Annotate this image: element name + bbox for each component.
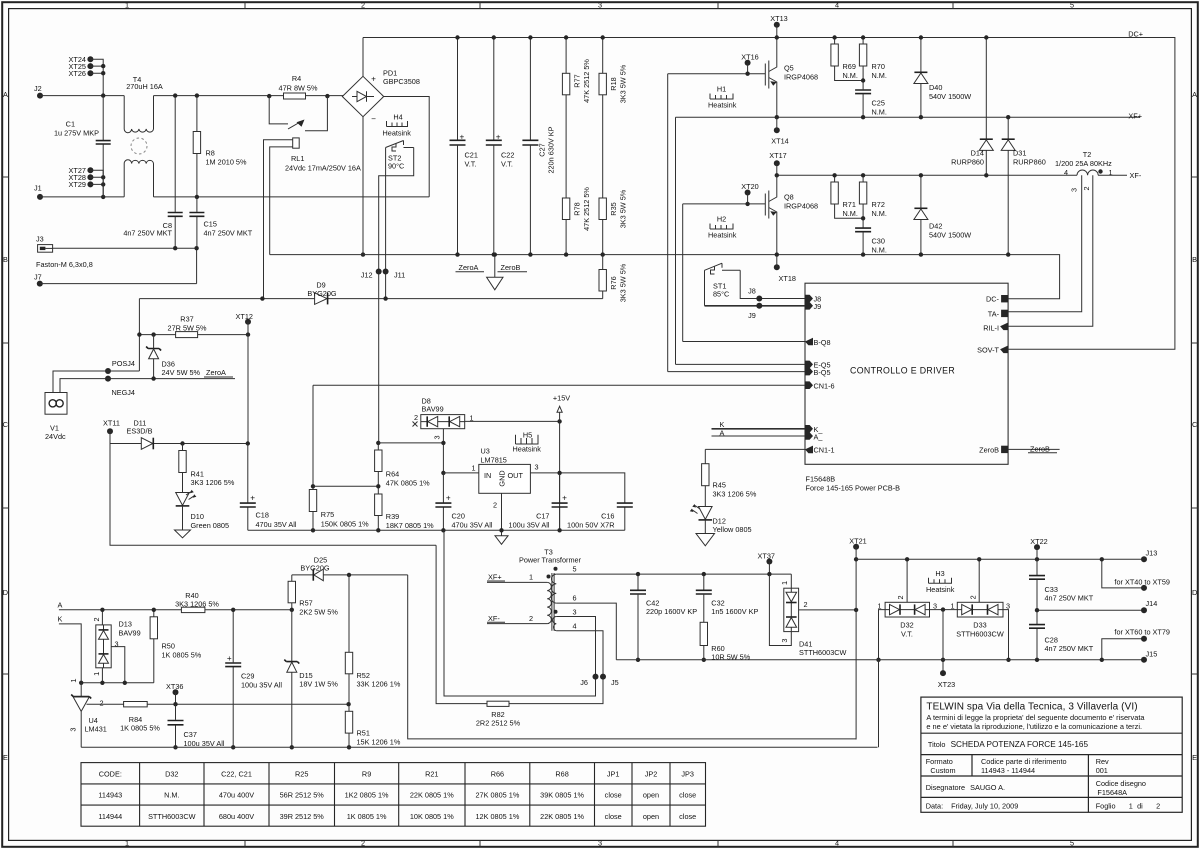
node XT17 <box>774 160 780 166</box>
svg-text:di: di <box>1137 801 1143 810</box>
svg-text:IRGP4068: IRGP4068 <box>784 73 818 82</box>
svg-text:D33: D33 <box>973 621 986 630</box>
svg-text:150K 0805 1%: 150K 0805 1% <box>321 520 369 529</box>
svg-text:B: B <box>1192 255 1197 264</box>
svg-text:N.M.: N.M. <box>843 209 858 218</box>
svg-text:4: 4 <box>572 622 576 631</box>
capacitor C20 <box>442 473 444 530</box>
svg-text:33K 1206 1%: 33K 1206 1% <box>357 680 401 689</box>
wire U3 out <box>530 473 624 503</box>
wire for XT40 branch <box>1102 559 1144 588</box>
pin B-Q8 <box>805 338 813 346</box>
svg-text:−: − <box>371 115 376 124</box>
wire D32 pin3 to D33 pin1 <box>930 609 958 611</box>
node J12 <box>376 269 382 275</box>
svg-text:R69: R69 <box>843 62 856 71</box>
resistor R40 <box>181 607 205 612</box>
svg-text:CN1-6: CN1-6 <box>814 382 835 391</box>
resistor R37 <box>176 332 198 338</box>
svg-text:BYG20G: BYG20G <box>307 289 337 298</box>
svg-text:ZeroA: ZeroA <box>459 263 479 272</box>
wire D13 pin3 <box>111 647 125 683</box>
transistor Q5 <box>765 61 769 89</box>
svg-text:Custom: Custom <box>930 766 955 775</box>
resistor R35 <box>599 198 606 220</box>
pin DC- <box>1001 295 1008 302</box>
svg-text:C37: C37 <box>184 730 197 739</box>
node XT12 <box>245 319 251 325</box>
wire POSJ4 vertical <box>138 299 140 371</box>
diode D31 <box>1007 117 1009 254</box>
svg-text:4n7 250V MKT: 4n7 250V MKT <box>204 229 253 238</box>
svg-text:1K 0805 5%: 1K 0805 5% <box>120 724 160 733</box>
svg-text:K: K <box>58 615 63 624</box>
svg-text:XT13: XT13 <box>770 14 787 23</box>
svg-text:N.M.: N.M. <box>164 791 179 800</box>
T3 core <box>552 573 554 631</box>
svg-text:XF-: XF- <box>488 614 500 623</box>
ground symbol U3 <box>495 536 508 545</box>
svg-text:H5: H5 <box>523 431 532 440</box>
svg-text:90°C: 90°C <box>388 161 404 170</box>
svg-text:39R 2512 5%: 39R 2512 5% <box>280 812 325 821</box>
svg-text:C30: C30 <box>872 237 885 246</box>
svg-text:3: 3 <box>933 601 937 610</box>
svg-text:+: + <box>496 133 501 142</box>
pin CN1-6 <box>805 381 813 389</box>
svg-text:J6: J6 <box>580 678 588 687</box>
svg-text:4: 4 <box>835 1 839 10</box>
wire T3 pin5 <box>556 573 791 575</box>
svg-text:22K 0805 1%: 22K 0805 1% <box>410 791 454 800</box>
svg-text:XF+: XF+ <box>488 573 502 582</box>
pin E-Q5 <box>805 361 813 369</box>
resistor R69 <box>835 38 864 81</box>
svg-text:XT22: XT22 <box>1030 537 1047 546</box>
svg-text:47K 0805 1%: 47K 0805 1% <box>386 478 430 487</box>
svg-text:A: A <box>1192 90 1197 99</box>
svg-text:10K 0805 1%: 10K 0805 1% <box>410 812 454 821</box>
node XT29 <box>87 181 93 187</box>
svg-text:N.M.: N.M. <box>872 209 887 218</box>
wire D32 pin2 <box>906 559 908 602</box>
svg-text:100u 35V All: 100u 35V All <box>509 521 550 530</box>
svg-text:Heatsink: Heatsink <box>708 101 737 110</box>
resistor R77 <box>565 38 567 255</box>
capacitor C15 <box>196 197 198 248</box>
resistor R76 <box>602 255 604 299</box>
svg-text:R35: R35 <box>609 202 618 215</box>
svg-text:3K3 1206 5%: 3K3 1206 5% <box>713 489 757 498</box>
svg-text:3K3 1206 5%: 3K3 1206 5% <box>191 478 235 487</box>
svg-text:B-Q5: B-Q5 <box>814 368 831 377</box>
svg-text:Heatsink: Heatsink <box>708 231 737 240</box>
svg-text:1: 1 <box>1108 168 1112 177</box>
svg-text:D14: D14 <box>971 149 984 158</box>
svg-text:Power Transformer: Power Transformer <box>519 556 582 565</box>
diode D9 <box>315 293 327 305</box>
svg-text:100u 35V All: 100u 35V All <box>241 680 282 689</box>
svg-text:540V 1500W: 540V 1500W <box>929 230 971 239</box>
diode D32 <box>885 602 929 617</box>
wire J14 line <box>1037 609 1144 611</box>
svg-text:470u 400V: 470u 400V <box>219 791 254 800</box>
svg-text:R9: R9 <box>362 769 371 778</box>
wire K junction line <box>81 682 154 684</box>
wire K line <box>59 624 81 683</box>
svg-text:C27: C27 <box>538 143 547 156</box>
node XT25 <box>87 63 93 69</box>
svg-text:R41: R41 <box>191 469 204 478</box>
svg-text:XF-: XF- <box>1130 171 1142 180</box>
wire PD1 right to J1 net <box>384 97 430 197</box>
svg-text:Foglio: Foglio <box>1096 801 1116 810</box>
svg-text:114943: 114943 <box>98 791 122 800</box>
svg-text:for XT40 to XT59: for XT40 to XT59 <box>1114 578 1170 587</box>
ground symbol D12 <box>704 520 706 534</box>
node J15 <box>1141 657 1147 663</box>
svg-text:H2: H2 <box>717 215 726 224</box>
node XT37 <box>766 559 772 565</box>
svg-text:J1: J1 <box>34 184 42 193</box>
svg-text:F15648A: F15648A <box>1097 788 1127 797</box>
svg-text:540V 1500W: 540V 1500W <box>929 92 971 101</box>
svg-text:2: 2 <box>804 600 808 609</box>
diode D40 <box>920 38 922 118</box>
svg-text:JP3: JP3 <box>681 769 694 778</box>
svg-text:XT14: XT14 <box>771 137 788 146</box>
svg-text:2: 2 <box>1156 801 1160 810</box>
svg-text:D13: D13 <box>119 619 132 628</box>
svg-text:R60: R60 <box>711 644 724 653</box>
wire J12 vertical to R64 <box>378 272 380 443</box>
capacitor C33 <box>1036 559 1038 610</box>
wire LM431 ref line <box>87 703 349 705</box>
svg-text:XT26: XT26 <box>69 69 86 78</box>
svg-text:J14: J14 <box>1146 599 1158 608</box>
wire XT21 vertical <box>855 547 857 740</box>
svg-text:Data:: Data: <box>926 801 943 810</box>
svg-text:ZeroB: ZeroB <box>501 263 521 272</box>
diode D14 <box>985 38 987 176</box>
svg-text:D: D <box>1192 588 1197 597</box>
wire D32 pin1 down <box>879 610 886 660</box>
node J9 <box>756 303 762 309</box>
svg-text:H4: H4 <box>393 113 402 122</box>
resistor R45 <box>704 449 706 506</box>
resistor R41 <box>182 444 184 493</box>
svg-text:STTH6003CW: STTH6003CW <box>956 630 1004 639</box>
svg-text:A_: A_ <box>814 432 824 441</box>
net label ZeroB right <box>1008 448 1060 450</box>
zener D15 <box>291 610 293 748</box>
capacitor C1 <box>102 96 104 197</box>
wire XT23 vertical <box>942 610 944 674</box>
node XT14 <box>774 127 780 133</box>
svg-text:R70: R70 <box>872 62 885 71</box>
svg-text:+: + <box>446 494 451 503</box>
svg-text:C16: C16 <box>601 511 614 520</box>
node XT11 <box>107 428 113 434</box>
wire Q5 gate <box>668 73 766 75</box>
svg-text:D31: D31 <box>1013 149 1026 158</box>
resistor R70 <box>862 38 864 90</box>
resistor R8 <box>196 96 198 197</box>
svg-text:470u 35V All: 470u 35V All <box>452 521 493 530</box>
svg-text:85°C: 85°C <box>713 290 729 299</box>
svg-text:H1: H1 <box>717 85 726 94</box>
node XT13 <box>774 22 780 28</box>
wire J2 line <box>40 95 343 97</box>
resistor R57 <box>291 575 293 610</box>
svg-text:D40: D40 <box>929 83 942 92</box>
svg-text:1K 0805 1%: 1K 0805 1% <box>347 812 387 821</box>
node J11 <box>383 269 389 275</box>
svg-text:D12: D12 <box>713 516 726 525</box>
node for XT40 <box>1141 585 1147 591</box>
wire PD1 bottom to zero rail <box>362 117 364 255</box>
svg-text:U4: U4 <box>89 716 98 725</box>
svg-text:1: 1 <box>471 463 475 472</box>
svg-text:22K 0805 1%: 22K 0805 1% <box>540 812 584 821</box>
wire CN1-6 <box>313 384 805 386</box>
svg-text:18K7 0805 1%: 18K7 0805 1% <box>386 521 434 530</box>
svg-text:J8: J8 <box>748 287 756 296</box>
svg-text:1: 1 <box>69 678 78 682</box>
svg-text:XT23: XT23 <box>938 680 955 689</box>
svg-text:ZeroA: ZeroA <box>206 368 226 377</box>
svg-text:24Vdc 17mA/250V 16A: 24Vdc 17mA/250V 16A <box>285 164 361 173</box>
svg-text:CONTROLLO E DRIVER: CONTROLLO E DRIVER <box>850 365 955 375</box>
resistor R50 <box>153 610 155 683</box>
wire D25 to sense line <box>408 575 856 739</box>
wire PD1 top to DC+ rail <box>362 38 364 77</box>
svg-text:J12: J12 <box>361 271 373 280</box>
svg-text:A: A <box>3 90 8 99</box>
svg-text:39K 0805 1%: 39K 0805 1% <box>540 791 584 800</box>
svg-text:1: 1 <box>1129 801 1133 810</box>
ground symbol D10 <box>182 506 184 530</box>
svg-text:680u 400V: 680u 400V <box>219 812 254 821</box>
svg-text:1: 1 <box>950 601 954 610</box>
svg-text:R8: R8 <box>206 149 215 158</box>
svg-text:J15: J15 <box>1146 649 1158 658</box>
svg-text:RIL-I: RIL-I <box>983 323 999 332</box>
svg-text:R51: R51 <box>357 729 370 738</box>
svg-text:C25: C25 <box>872 99 885 108</box>
svg-text:1: 1 <box>125 1 129 10</box>
node XT22 <box>1034 544 1040 550</box>
svg-text:C32: C32 <box>711 598 724 607</box>
svg-text:12K 0805 1%: 12K 0805 1% <box>475 812 519 821</box>
wire gate vertical B-Q8 <box>682 204 684 342</box>
svg-text:27K 0805 1%: 27K 0805 1% <box>475 791 519 800</box>
svg-text:+: + <box>371 75 376 84</box>
svg-text:2K2 5W 5%: 2K2 5W 5% <box>299 608 338 617</box>
node POSJ4 <box>105 368 111 374</box>
wire XT24-26 to C1 <box>90 59 103 95</box>
svg-text:C18: C18 <box>256 510 269 519</box>
svg-text:Q8: Q8 <box>784 193 794 202</box>
svg-text:LM7815: LM7815 <box>481 456 507 465</box>
svg-text:for XT60 to XT79: for XT60 to XT79 <box>1114 627 1170 636</box>
svg-text:open: open <box>643 791 659 800</box>
svg-text:XT29: XT29 <box>69 180 86 189</box>
resistor R84 <box>124 702 148 707</box>
svg-text:Force 145-165 Power PCB-B: Force 145-165 Power PCB-B <box>806 483 901 492</box>
svg-text:5: 5 <box>1070 839 1074 848</box>
wire XF- rail <box>777 174 1077 176</box>
svg-text:470u 35V All: 470u 35V All <box>256 520 297 529</box>
resistor R52 <box>348 575 350 711</box>
svg-text:R45: R45 <box>713 481 726 490</box>
svg-text:4n7 250V MKT: 4n7 250V MKT <box>123 229 172 238</box>
wire J11 vertical to D9 line <box>385 272 387 299</box>
svg-text:2: 2 <box>493 501 497 510</box>
capacitor C18 <box>247 444 249 531</box>
wire R37 line <box>139 334 248 336</box>
svg-text:N.M.: N.M. <box>872 107 887 116</box>
svg-text:3K3 5W 5%: 3K3 5W 5% <box>619 64 628 103</box>
wire POSJ4 <box>53 371 139 393</box>
svg-text:V.T.: V.T. <box>465 160 477 169</box>
capacitor C30 <box>855 228 871 232</box>
wire emitter vertical E-Q5 <box>675 117 677 364</box>
svg-text:C33: C33 <box>1045 585 1058 594</box>
svg-text:2: 2 <box>969 595 978 599</box>
diode D11 <box>141 438 153 450</box>
wire B-Q8 <box>683 341 805 343</box>
svg-text:C21: C21 <box>465 151 478 160</box>
svg-text:D41: D41 <box>799 639 812 648</box>
shunt regulator U4 LM431 <box>80 683 82 697</box>
wire D41 pin2 <box>799 609 857 611</box>
wire J1 line <box>40 196 429 198</box>
resistor R51 <box>345 711 352 733</box>
svg-text:4n7 250V MKT: 4n7 250V MKT <box>1045 644 1094 653</box>
svg-text:A termini di legge la propriet: A termini di legge la proprieta' del seg… <box>926 713 1145 722</box>
wire output top rail <box>856 558 1144 560</box>
wire D8 pin3 vertical <box>442 429 444 473</box>
svg-text:2: 2 <box>529 614 533 623</box>
node J8 <box>756 296 762 302</box>
svg-text:+15V: +15V <box>553 393 570 402</box>
svg-text:Faston-M 6,3x0,8: Faston-M 6,3x0,8 <box>36 260 93 269</box>
svg-text:R68: R68 <box>555 769 568 778</box>
svg-text:GBPC3508: GBPC3508 <box>383 77 420 86</box>
svg-text:4: 4 <box>1064 168 1068 177</box>
relay contact RL1 <box>269 96 327 131</box>
node XT24 <box>87 56 93 62</box>
wire D32 pin1 to LM431 rail <box>878 660 880 748</box>
svg-text:114944: 114944 <box>98 812 122 821</box>
svg-text:Formato: Formato <box>926 757 953 766</box>
node J1 <box>37 194 43 200</box>
svg-text:Titolo: Titolo <box>928 740 946 749</box>
svg-text:C22: C22 <box>501 151 514 160</box>
svg-text:1M 2010 5%: 1M 2010 5% <box>206 158 247 167</box>
svg-text:R75: R75 <box>321 510 334 519</box>
wire XT13 to Q5 collector <box>776 25 778 60</box>
svg-text:A: A <box>58 601 63 610</box>
svg-text:T2: T2 <box>1083 150 1092 159</box>
svg-text:R21: R21 <box>425 769 438 778</box>
svg-text:C20: C20 <box>452 511 465 520</box>
pin ZeroB <box>1001 446 1008 453</box>
svg-text:Codice parte di riferimento: Codice parte di riferimento <box>981 757 1067 766</box>
node for XT60 <box>1141 636 1147 642</box>
wire E-Q5 <box>676 363 806 365</box>
node J5 <box>600 674 606 680</box>
pin K_ <box>805 425 813 433</box>
svg-text:ZeroB: ZeroB <box>979 446 999 455</box>
svg-text:R64: R64 <box>386 469 399 478</box>
wire J3 line <box>53 248 197 283</box>
wire gate vertical B-Q5 <box>667 74 669 372</box>
svg-text:220p 1600V KP: 220p 1600V KP <box>646 607 697 616</box>
svg-text:Heatsink: Heatsink <box>926 585 955 594</box>
svg-text:DC-: DC- <box>986 295 1000 304</box>
svg-text:LM431: LM431 <box>85 725 107 734</box>
wire Q8 gate <box>683 203 766 205</box>
node J7 <box>37 281 43 287</box>
node J6 <box>593 674 599 680</box>
resistor R60 <box>700 622 707 645</box>
svg-text:Yellow 0805: Yellow 0805 <box>713 525 752 534</box>
svg-text:Codice disegno: Codice disegno <box>1096 779 1146 788</box>
svg-text:220n 630V KP: 220n 630V KP <box>547 126 556 173</box>
svg-text:5: 5 <box>572 565 576 574</box>
pin RIL-I <box>1000 323 1008 331</box>
diode D41 <box>784 588 799 631</box>
svg-text:XT16: XT16 <box>741 53 758 62</box>
svg-text:C22, C21: C22, C21 <box>221 769 252 778</box>
capacitor C42 <box>637 574 639 660</box>
svg-text:XT37: XT37 <box>758 551 775 560</box>
relay coil RL1 <box>293 138 300 148</box>
node XT26 <box>87 70 93 76</box>
svg-text:3: 3 <box>69 727 78 731</box>
svg-text:114943 - 114944: 114943 - 114944 <box>981 766 1035 775</box>
node J2 <box>37 93 43 99</box>
svg-text:R50: R50 <box>162 642 175 651</box>
node XT23 <box>940 670 946 676</box>
svg-text:+: + <box>460 133 465 142</box>
wire A_ <box>712 435 806 437</box>
wire XT27-29 to J1 <box>90 170 103 197</box>
svg-text:IRGP4068: IRGP4068 <box>784 202 818 211</box>
svg-text:CODE:: CODE: <box>99 769 122 778</box>
svg-text:POSJ4: POSJ4 <box>112 359 135 368</box>
svg-text:C42: C42 <box>646 598 659 607</box>
svg-text:C28: C28 <box>1045 635 1058 644</box>
wire D8 pin3 link <box>378 442 443 444</box>
svg-text:R18: R18 <box>609 77 618 90</box>
wire XT11/D11 line <box>110 431 248 443</box>
svg-text:R76: R76 <box>609 276 618 289</box>
node XT21 <box>853 544 859 550</box>
svg-text:B-Q8: B-Q8 <box>814 338 831 347</box>
svg-text:JP1: JP1 <box>607 769 620 778</box>
svg-text:J9: J9 <box>748 311 756 320</box>
transistor Q8 <box>765 191 769 219</box>
svg-text:J3: J3 <box>36 235 44 244</box>
svg-text:3: 3 <box>433 435 442 439</box>
svg-text:C: C <box>1192 420 1197 429</box>
svg-text:D36: D36 <box>162 359 175 368</box>
svg-text:C1: C1 <box>66 120 75 129</box>
svg-text:BYG20G: BYG20G <box>300 564 330 573</box>
